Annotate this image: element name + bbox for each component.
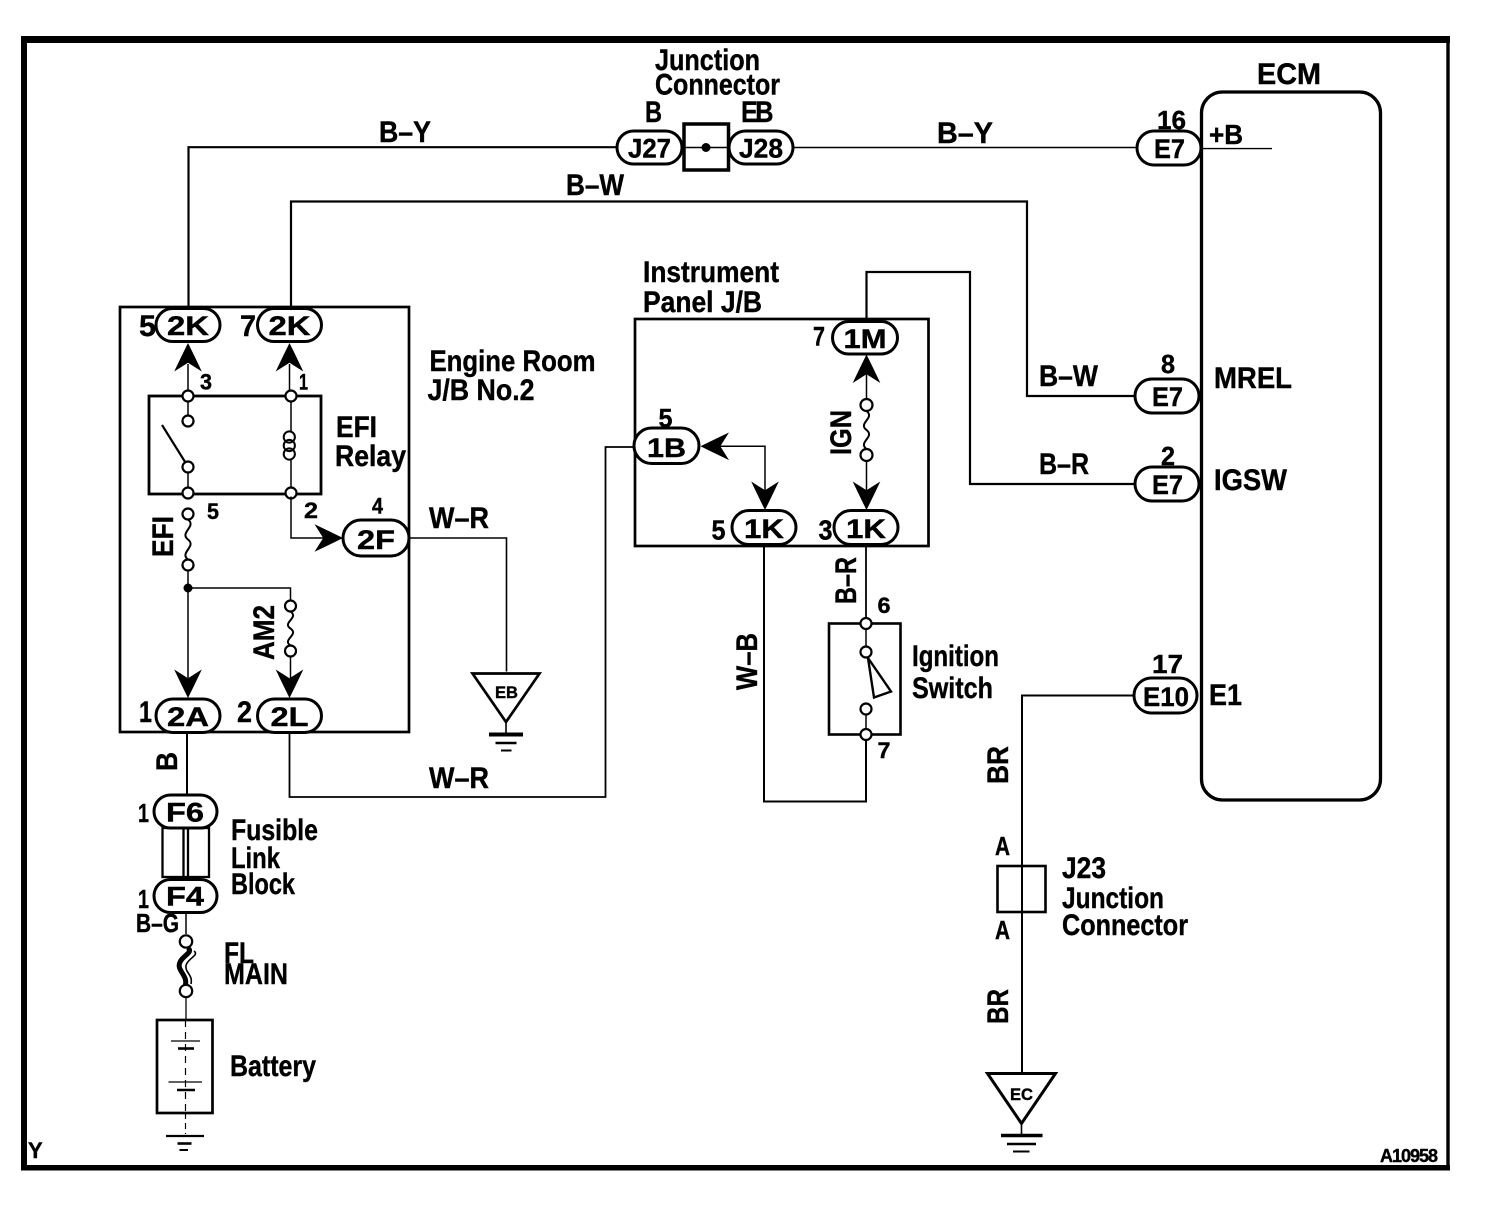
switch blade: [868, 658, 891, 698]
svg-text:B–W: B–W: [1039, 360, 1099, 393]
svg-text:J23: J23: [1062, 852, 1106, 885]
svg-text:Connector: Connector: [1062, 909, 1188, 942]
connector F6: [154, 795, 217, 828]
connector 2F: [343, 520, 409, 556]
svg-text:BR: BR: [982, 989, 1015, 1024]
svg-text:W–B: W–B: [731, 633, 764, 690]
svg-text:E7: E7: [1154, 134, 1185, 164]
svg-text:EC: EC: [1010, 1085, 1033, 1104]
svg-text:Relay: Relay: [335, 440, 406, 473]
fuse IGN: [861, 399, 873, 461]
wire branch to AM2: [188, 588, 291, 601]
ground EB triangle: [473, 674, 540, 751]
Engine Room J/B box: [120, 307, 409, 732]
svg-text:W–R: W–R: [429, 762, 489, 795]
svg-text:E7: E7: [1152, 470, 1183, 500]
wire W-B from 1K pin5 to ignition switch pin7: [764, 545, 866, 802]
battery: [157, 1020, 213, 1113]
svg-text:1B: 1B: [647, 433, 686, 463]
arrow right into 2F: [315, 524, 344, 552]
junction connector square: [684, 124, 729, 170]
wire to IGN fuse: [866, 375, 868, 400]
wire 1K pin5 to 1B arrow: [719, 446, 765, 490]
svg-text:Ignition: Ignition: [912, 640, 999, 673]
svg-text:A: A: [995, 831, 1010, 861]
connector E10 pin17: [1134, 678, 1197, 713]
wire AM2 fuse to 2L arrow: [290, 657, 292, 679]
wire below arrow 7: [289, 364, 291, 391]
svg-text:2: 2: [304, 498, 318, 523]
connector 2K pin7: [258, 309, 322, 342]
svg-text:Instrument: Instrument: [643, 256, 779, 289]
wire +B stub: [1202, 148, 1272, 150]
relay coil: [284, 431, 295, 459]
svg-text:B: B: [151, 752, 184, 771]
svg-text:1: 1: [299, 370, 308, 395]
svg-text:7: 7: [240, 310, 256, 343]
relay pin circles left: [183, 391, 194, 402]
connector 1K pin5: [732, 511, 796, 545]
svg-text:E7: E7: [1152, 382, 1183, 412]
svg-text:+B: +B: [1209, 119, 1243, 150]
svg-text:A10958: A10958: [1380, 1146, 1438, 1166]
svg-text:B–W: B–W: [566, 169, 625, 202]
arrow down into 2A: [174, 670, 202, 699]
svg-text:B–R: B–R: [830, 557, 863, 604]
arrow up into 2K pin7: [276, 343, 304, 372]
battery ground: [166, 1113, 204, 1150]
connector E7 pin16: [1137, 131, 1201, 165]
svg-text:E1: E1: [1209, 679, 1242, 712]
switch internal wire top: [865, 629, 867, 647]
svg-text:Block: Block: [231, 868, 295, 901]
svg-text:F4: F4: [166, 882, 204, 912]
svg-text:7: 7: [878, 738, 891, 763]
svg-text:6: 6: [878, 593, 891, 618]
svg-text:1K: 1K: [744, 514, 785, 544]
svg-text:A: A: [995, 915, 1010, 945]
junction dot: [184, 584, 193, 593]
connector 2A: [156, 699, 220, 733]
svg-text:2F: 2F: [357, 525, 395, 555]
wire below arrow 5: [187, 364, 189, 391]
wire B-Y from 2K pin5 to J27: [189, 147, 619, 309]
svg-text:B–Y: B–Y: [379, 116, 431, 149]
EFI relay box: [149, 396, 321, 494]
svg-text:J27: J27: [628, 134, 671, 164]
svg-text:IGN: IGN: [825, 410, 858, 455]
wire IGN fuse to 1K arrow: [866, 461, 868, 491]
wire B from 2A to F6: [186, 733, 188, 795]
svg-text:B–Y: B–Y: [937, 117, 993, 150]
arrow down into 1K pin3: [853, 482, 881, 511]
svg-text:E10: E10: [1143, 682, 1189, 712]
switch pin circles: [861, 618, 872, 629]
relay switch blade: [162, 425, 187, 465]
svg-text:J/B No.2: J/B No.2: [428, 374, 535, 407]
ignition switch box: [829, 624, 901, 735]
svg-text:2K: 2K: [167, 311, 210, 341]
svg-text:B–G: B–G: [136, 908, 179, 938]
relay pin 2 to 2F wire: [291, 497, 324, 539]
switch internal wire bottom: [865, 715, 867, 730]
connector 2L: [258, 699, 322, 733]
svg-text:J28: J28: [739, 134, 783, 164]
svg-text:Panel J/B: Panel J/B: [643, 286, 762, 319]
connector E7 pin2: [1135, 467, 1199, 501]
svg-text:7: 7: [813, 322, 825, 352]
svg-text:5: 5: [139, 310, 156, 343]
svg-text:MAIN: MAIN: [224, 958, 288, 991]
svg-text:1K: 1K: [846, 514, 887, 544]
arrow down into 1K pin5: [751, 482, 779, 511]
connector 1K pin3: [834, 511, 898, 545]
connector E7 pin8: [1135, 379, 1199, 413]
relay coil wire: [290, 396, 292, 432]
relay switch wire: [187, 396, 189, 421]
svg-text:B: B: [645, 96, 662, 129]
wire through J23: [1021, 866, 1023, 912]
svg-text:EB: EB: [741, 96, 773, 129]
wire link J27-J28: [680, 147, 731, 149]
relay pin circles right: [286, 391, 297, 402]
connector 1M: [833, 322, 898, 355]
arrow down into 2L: [276, 670, 304, 699]
wire EFI fuse to 2A arrow: [187, 571, 189, 679]
junction dot: [702, 143, 711, 152]
junction connector J23 square: [998, 866, 1046, 912]
svg-text:W–R: W–R: [429, 502, 489, 535]
svg-text:EFI: EFI: [147, 516, 180, 557]
wire W-R from 2F to EB ground: [409, 538, 507, 672]
svg-text:3: 3: [819, 515, 833, 546]
wire BR from ECM pin17 to EC ground: [1022, 696, 1134, 1073]
arrow up into 1M: [853, 355, 881, 384]
svg-text:3: 3: [200, 370, 212, 395]
arrow left into 1B: [701, 433, 730, 461]
svg-text:2L: 2L: [271, 702, 309, 732]
arrow up into 2K pin5: [174, 343, 202, 372]
svg-text:17: 17: [1152, 649, 1183, 679]
svg-text:MREL: MREL: [1214, 362, 1292, 395]
fuse AM2: [285, 601, 296, 657]
svg-text:8: 8: [1161, 349, 1175, 379]
svg-text:2: 2: [237, 696, 252, 729]
svg-text:2A: 2A: [167, 702, 209, 732]
svg-text:1: 1: [139, 696, 152, 729]
svg-text:5: 5: [207, 499, 219, 524]
svg-text:F6: F6: [166, 798, 204, 828]
ECM box: [1202, 92, 1381, 800]
svg-text:IGSW: IGSW: [1214, 464, 1288, 497]
connector J27: [617, 131, 682, 164]
wire B-R from 1M to ECM pin2: [867, 272, 1136, 484]
svg-text:AM2: AM2: [248, 605, 281, 660]
connector J28: [729, 131, 793, 164]
fusible link FL MAIN: [179, 935, 195, 997]
connector F4: [154, 880, 217, 913]
ground EC triangle: [988, 1074, 1056, 1152]
wire F4 to FL MAIN: [185, 913, 187, 934]
svg-text:5: 5: [712, 515, 726, 546]
svg-text:ECM: ECM: [1257, 58, 1321, 91]
svg-text:Switch: Switch: [912, 672, 993, 705]
svg-text:B–R: B–R: [1039, 448, 1089, 481]
svg-text:Y: Y: [28, 1138, 43, 1163]
svg-text:Battery: Battery: [230, 1050, 316, 1083]
svg-text:EB: EB: [495, 683, 518, 702]
svg-text:4: 4: [372, 494, 384, 519]
wire B-R 1K3 to ignition switch: [865, 545, 867, 620]
connector 1B: [634, 428, 699, 464]
svg-text:2K: 2K: [269, 311, 312, 341]
Instrument Panel J/B box: [635, 319, 929, 546]
wire B-Y from J28 to ECM pin 16: [793, 147, 1137, 149]
wire FL MAIN to battery: [185, 997, 187, 1020]
connector 2K pin5: [156, 309, 220, 342]
fusible link block body: [163, 828, 210, 877]
wire W-R from 2L to 1B: [290, 447, 635, 797]
fuse EFI: [183, 509, 194, 571]
svg-text:1: 1: [138, 798, 149, 828]
svg-text:BR: BR: [982, 746, 1015, 784]
wire B-W from 2K pin7 to ECM pin8: [291, 202, 1135, 397]
svg-text:1M: 1M: [844, 324, 887, 354]
